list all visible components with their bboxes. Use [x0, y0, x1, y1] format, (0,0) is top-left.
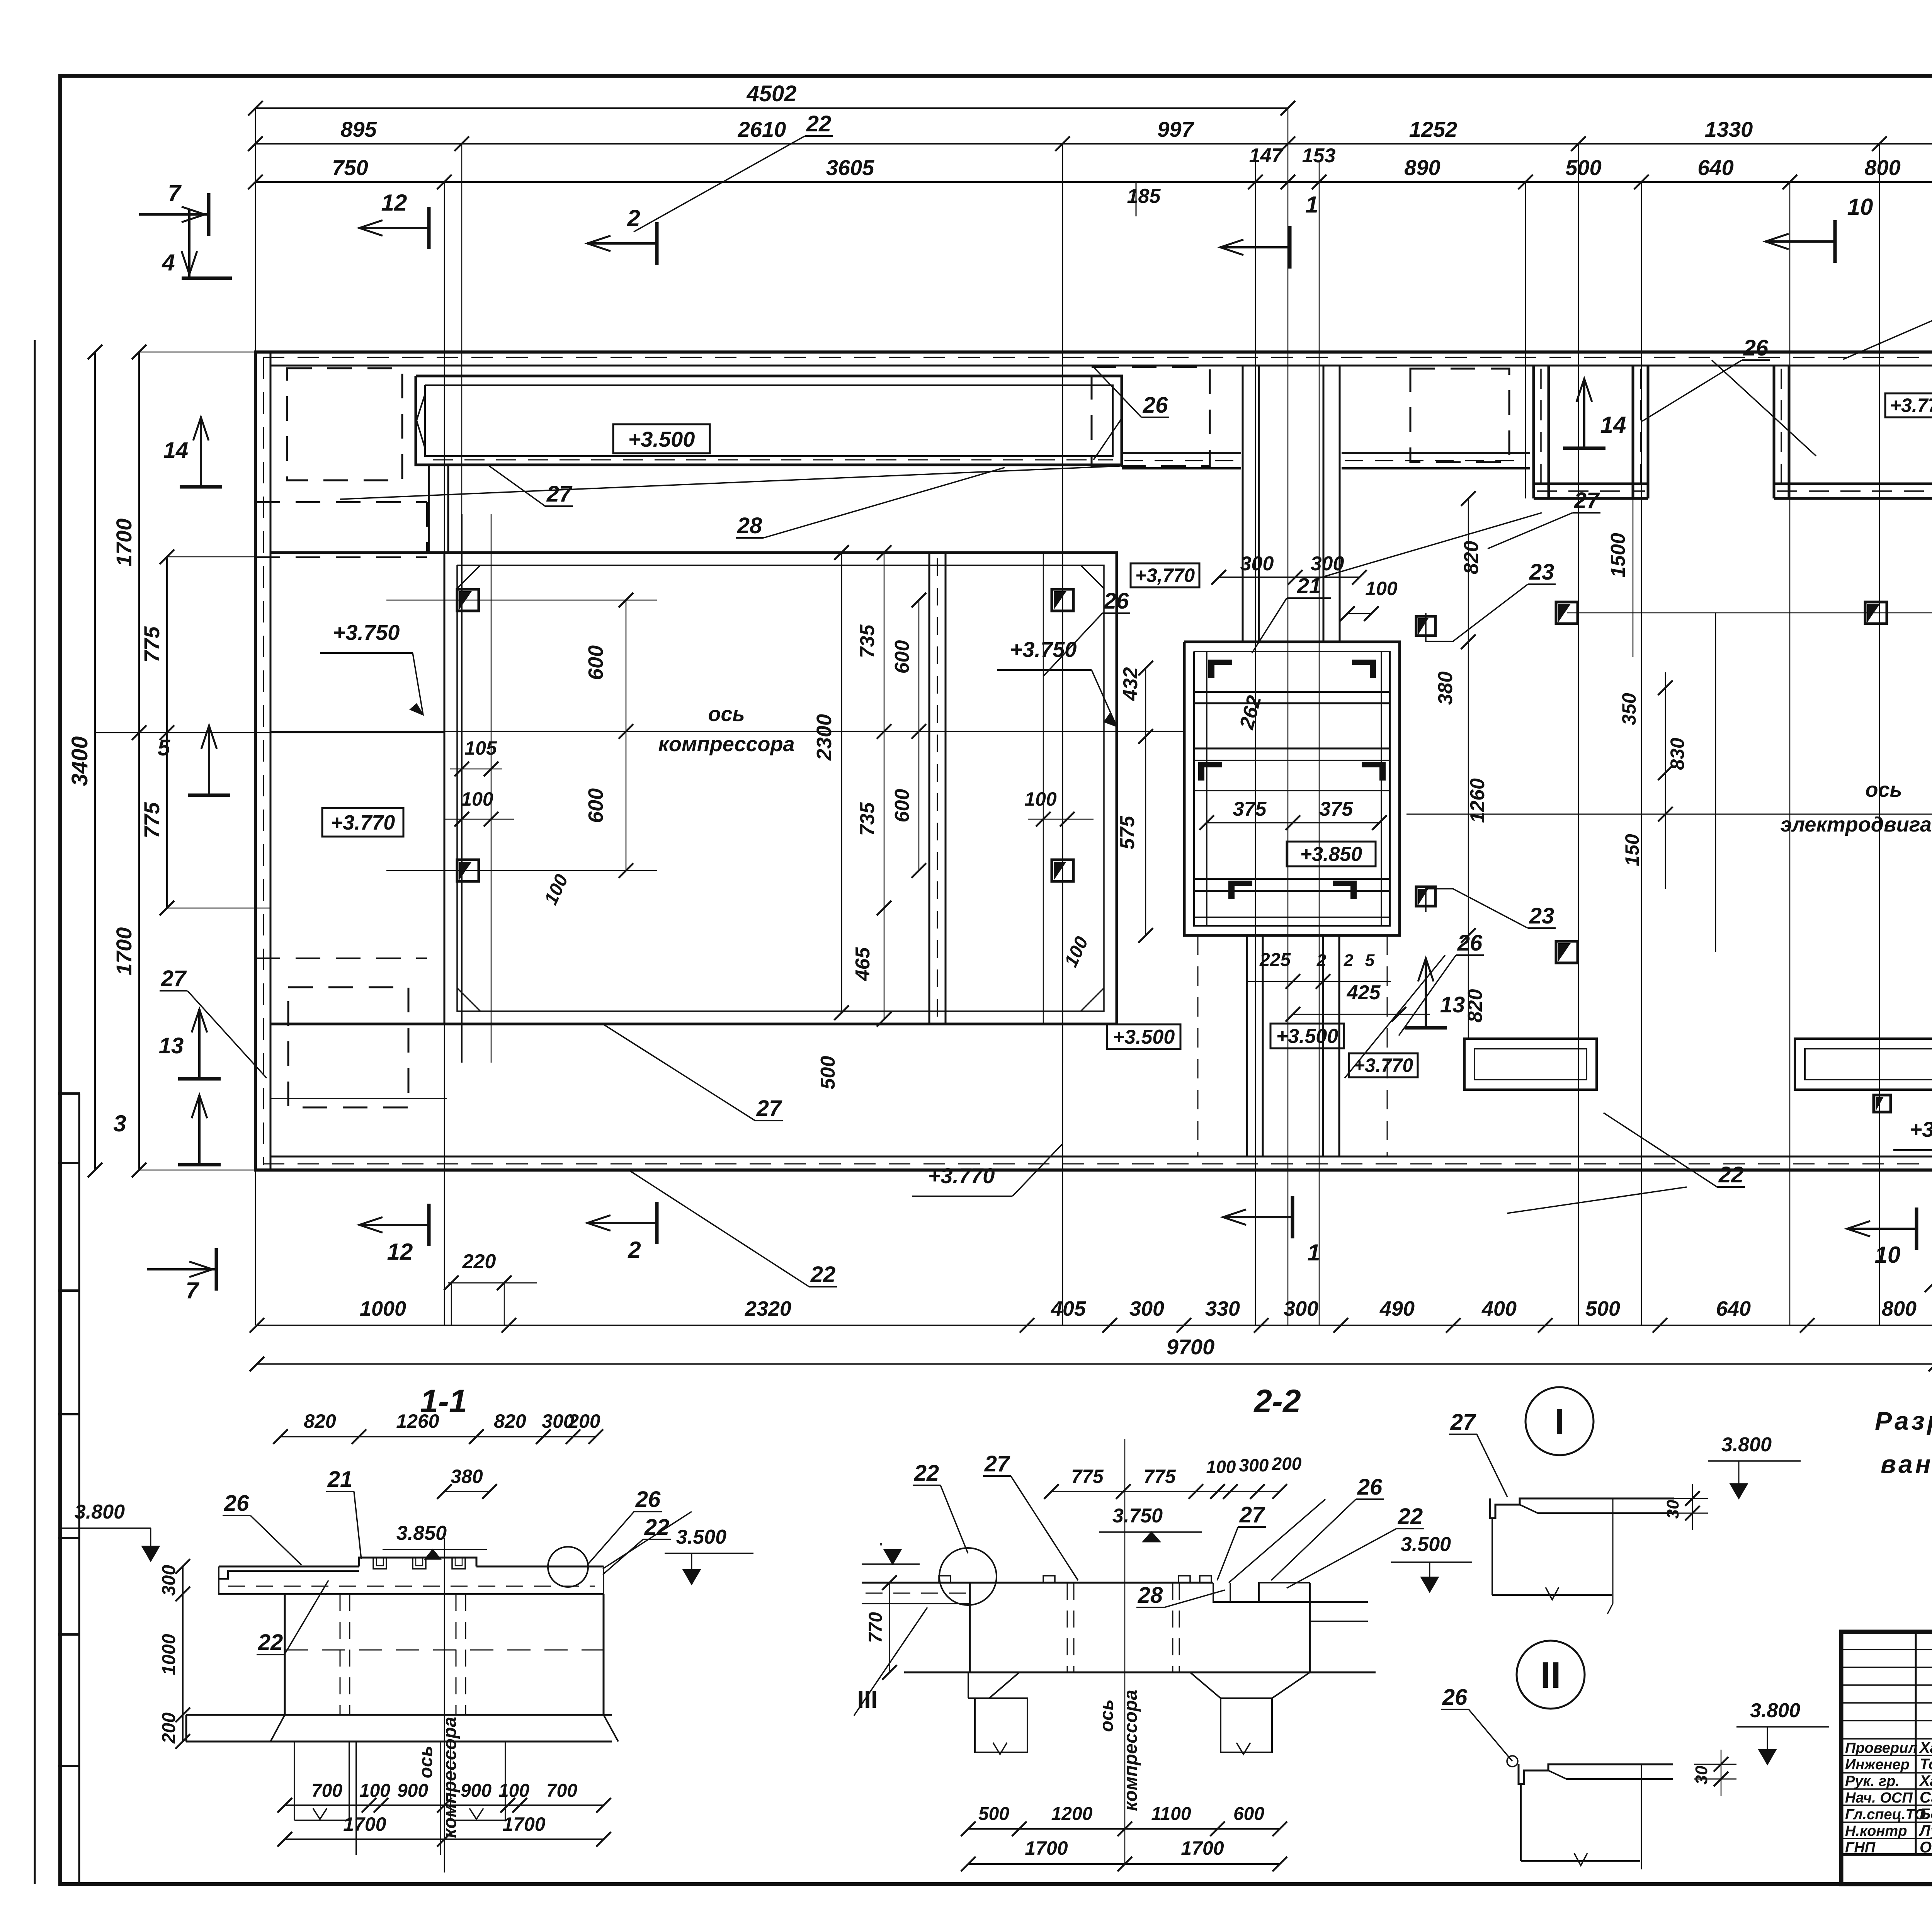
svg-text:+3.770: +3.770 — [928, 1163, 995, 1188]
svg-text:200: 200 — [568, 1410, 600, 1432]
svg-text:3.500: 3.500 — [676, 1526, 726, 1548]
svg-text:300: 300 — [1129, 1297, 1164, 1320]
left dimension columns — [94, 352, 96, 1170]
svg-text:III: III — [857, 1685, 878, 1713]
svg-text:22: 22 — [806, 111, 832, 136]
svg-text:Ханин: Ханин — [1919, 1772, 1932, 1789]
svg-text:1330: 1330 — [1705, 117, 1753, 141]
svg-text:1000: 1000 — [360, 1297, 406, 1320]
svg-text:27: 27 — [1450, 1410, 1476, 1435]
svg-text:100: 100 — [1024, 788, 1057, 810]
svg-text:13: 13 — [1440, 992, 1465, 1017]
svg-text:400: 400 — [1481, 1297, 1517, 1320]
svg-text:100: 100 — [461, 788, 493, 810]
leader labels left — [805, 135, 833, 137]
svg-text:27: 27 — [161, 966, 187, 991]
svg-text:800: 800 — [1882, 1297, 1917, 1320]
svg-text:Разрезы 10-10 — 14-14 даны на: Разрезы 10-10 — 14-14 даны на схеме арми… — [1875, 1406, 1932, 1435]
svg-text:12: 12 — [387, 1239, 413, 1265]
svg-text:700: 700 — [546, 1781, 577, 1801]
svg-text:+3,770: +3,770 — [1135, 565, 1195, 586]
svg-text:890: 890 — [1404, 155, 1440, 180]
central block bands — [1194, 691, 1390, 693]
svg-text:330: 330 — [1205, 1297, 1240, 1320]
svg-text:1260: 1260 — [396, 1410, 439, 1432]
svg-text:26: 26 — [224, 1491, 249, 1516]
svg-text:2300: 2300 — [813, 714, 836, 761]
svg-text:820: 820 — [1464, 989, 1486, 1023]
svg-text:10: 10 — [1847, 194, 1873, 220]
dashed strips left — [255, 501, 427, 503]
svg-text:3.850: 3.850 — [396, 1522, 447, 1544]
dashed squares flanking top channels — [1092, 367, 1210, 466]
svg-text:14: 14 — [163, 438, 189, 463]
svg-text:22: 22 — [1398, 1504, 1423, 1529]
svg-text:300: 300 — [1240, 553, 1274, 575]
construction verticals left — [461, 514, 463, 1063]
svg-text:147: 147 — [1249, 145, 1284, 167]
svg-text:600: 600 — [584, 788, 607, 823]
central block outer — [1184, 642, 1400, 935]
axis компрессора — [270, 731, 1184, 732]
svg-text:30: 30 — [1692, 1765, 1711, 1784]
svg-text:820: 820 — [494, 1410, 526, 1432]
svg-text:21: 21 — [1297, 573, 1321, 598]
svg-text:1200: 1200 — [1051, 1804, 1093, 1824]
svg-text:Проверил: Проверил — [1845, 1740, 1917, 1756]
svg-text:820: 820 — [1460, 541, 1483, 575]
svg-text:2: 2 — [628, 1237, 641, 1263]
svg-text:27: 27 — [1574, 488, 1600, 513]
svg-text:750: 750 — [332, 155, 368, 180]
small dims left zone — [386, 600, 657, 601]
svg-text:770: 770 — [866, 1612, 886, 1643]
svg-text:425: 425 — [1347, 981, 1381, 1004]
svg-text:26: 26 — [1357, 1475, 1383, 1500]
svg-text:4: 4 — [162, 250, 175, 276]
svg-text:800: 800 — [1864, 155, 1900, 180]
svg-text:Нач. ОСП: Нач. ОСП — [1845, 1790, 1913, 1806]
svg-text:1700: 1700 — [343, 1813, 386, 1835]
svg-text:200: 200 — [1272, 1454, 1302, 1474]
svg-text:2: 2 — [1344, 951, 1354, 970]
anchor squares left zone — [457, 589, 479, 611]
svg-text:Толмачева: Толмачева — [1920, 1756, 1932, 1773]
svg-text:700: 700 — [311, 1781, 342, 1801]
top niches right — [1532, 366, 1535, 498]
svg-text:Боярченко: Боярченко — [1920, 1806, 1932, 1823]
svg-text:100: 100 — [1365, 578, 1398, 599]
detail I — [1526, 1387, 1594, 1455]
svg-text:10: 10 — [1875, 1242, 1901, 1268]
svg-text:375: 375 — [1320, 798, 1354, 820]
svg-text:+3.770: +3.770 — [331, 811, 395, 834]
dim 2300 in pit — [841, 553, 842, 1013]
svg-text:27: 27 — [546, 481, 573, 507]
svg-text:375: 375 — [1233, 798, 1267, 820]
plan: dashed wall centrelines — [263, 357, 1932, 358]
23 leaders — [1528, 583, 1556, 585]
svg-text:600: 600 — [584, 645, 607, 680]
svg-text:+3.800: +3.800 — [1910, 1117, 1932, 1141]
svg-text:775: 775 — [1143, 1466, 1176, 1487]
svg-text:600: 600 — [891, 640, 913, 674]
central block dims — [1219, 577, 1359, 578]
svg-text:1500: 1500 — [1607, 533, 1629, 578]
svg-text:Рук. гр.: Рук. гр. — [1845, 1773, 1900, 1789]
bottom section arrows — [427, 1204, 431, 1246]
svg-text:300: 300 — [1284, 1297, 1318, 1320]
svg-text:14: 14 — [1600, 412, 1626, 438]
svg-text:997: 997 — [1157, 117, 1194, 141]
svg-text:22: 22 — [810, 1262, 836, 1287]
svg-text:220: 220 — [462, 1250, 496, 1273]
svg-text:2: 2 — [627, 205, 640, 231]
svg-text:26: 26 — [1457, 930, 1483, 956]
svg-text:ось: ось — [1865, 778, 1902, 801]
svg-text:Саакьянц: Саакьянц — [1920, 1789, 1932, 1806]
svg-text:2-2: 2-2 — [1253, 1383, 1301, 1419]
svg-text:7: 7 — [185, 1277, 199, 1303]
svg-text:+3.500: +3.500 — [1113, 1026, 1175, 1048]
svg-text:27: 27 — [1239, 1502, 1265, 1527]
anchor squares right — [1556, 602, 1578, 624]
svg-text:100: 100 — [359, 1781, 390, 1801]
svg-text:820: 820 — [304, 1410, 336, 1432]
svg-text:26: 26 — [1104, 588, 1129, 614]
svg-text:1252: 1252 — [1409, 117, 1458, 141]
svg-text:ось: ось — [1097, 1699, 1117, 1732]
svg-text:225: 225 — [1259, 950, 1291, 970]
svg-text:150: 150 — [1621, 834, 1643, 866]
svg-text:1000: 1000 — [159, 1634, 179, 1675]
svg-text:3.500: 3.500 — [1401, 1533, 1451, 1556]
beam +3.500 top-left — [416, 376, 1122, 465]
left 27 leader — [160, 990, 187, 992]
title block — [1841, 1632, 1932, 1884]
svg-text:465: 465 — [852, 947, 874, 981]
svg-text:+3.850: +3.850 — [1300, 843, 1362, 866]
svg-text:3: 3 — [113, 1111, 126, 1136]
svg-text:+3.770: +3.770 — [1354, 1054, 1413, 1076]
mid dim chains — [884, 553, 885, 1019]
niche level boxes — [1885, 393, 1932, 417]
svg-text:600: 600 — [1233, 1804, 1264, 1824]
svg-text:350: 350 — [1618, 693, 1640, 725]
svg-text:3.800: 3.800 — [1750, 1699, 1800, 1722]
svg-text:300: 300 — [159, 1565, 179, 1596]
svg-text:100: 100 — [498, 1781, 529, 1801]
svg-text:2320: 2320 — [745, 1297, 791, 1320]
svg-text:640: 640 — [1716, 1297, 1751, 1320]
svg-text:490: 490 — [1379, 1297, 1415, 1320]
svg-text:26: 26 — [1442, 1685, 1468, 1710]
svg-text:2: 2 — [1316, 951, 1327, 970]
svg-text:5: 5 — [1365, 951, 1375, 970]
svg-text:+3.750: +3.750 — [1010, 637, 1077, 662]
svg-text:1700: 1700 — [1181, 1837, 1224, 1859]
svg-text:830: 830 — [1667, 738, 1688, 770]
svg-text:380: 380 — [1434, 672, 1457, 705]
svg-text:компрессора: компрессора — [658, 733, 794, 756]
svg-text:895: 895 — [340, 117, 377, 141]
svg-text:1700: 1700 — [112, 927, 136, 976]
svg-text:775: 775 — [139, 802, 164, 838]
section cut arrows, top — [427, 207, 431, 249]
svg-text:7: 7 — [168, 180, 182, 206]
channels to bottom wall — [1246, 935, 1248, 1156]
svg-text:компрессора: компрессора — [1121, 1690, 1141, 1811]
plan: plate outer boundary — [255, 352, 1932, 1170]
bottom leaders 22 — [809, 1286, 837, 1287]
svg-text:575: 575 — [1116, 816, 1139, 850]
svg-text:4502: 4502 — [746, 81, 796, 106]
svg-text:500: 500 — [1585, 1297, 1620, 1320]
svg-text:Н.контр: Н.контр — [1845, 1823, 1907, 1839]
svg-text:26: 26 — [635, 1487, 661, 1512]
svg-text:2610: 2610 — [738, 117, 786, 141]
svg-text:900: 900 — [461, 1781, 492, 1801]
svg-text:9700: 9700 — [1167, 1335, 1215, 1359]
svg-text:30: 30 — [1663, 1500, 1682, 1519]
svg-text:500: 500 — [1565, 155, 1601, 180]
svg-text:185: 185 — [1127, 185, 1161, 207]
svg-text:Инженер: Инженер — [1845, 1757, 1910, 1773]
bottom niches — [1464, 1039, 1597, 1090]
svg-text:432: 432 — [1119, 667, 1142, 701]
svg-text:электродвигателя: электродвигателя — [1781, 813, 1932, 836]
svg-text:22: 22 — [644, 1515, 670, 1540]
compressor pit rectangle — [270, 553, 1117, 1024]
svg-text:12: 12 — [381, 190, 407, 216]
svg-text:500: 500 — [817, 1056, 839, 1090]
svg-text:22: 22 — [914, 1461, 939, 1486]
svg-text:3.800: 3.800 — [1721, 1434, 1772, 1456]
svg-text:900: 900 — [397, 1781, 428, 1801]
svg-text:27: 27 — [984, 1451, 1010, 1476]
svg-text:1700: 1700 — [502, 1813, 545, 1835]
svg-text:22: 22 — [1718, 1162, 1744, 1187]
svg-text:1: 1 — [1307, 1240, 1320, 1265]
svg-text:26: 26 — [1143, 393, 1168, 418]
svg-text:компрессора: компрессора — [440, 1717, 460, 1838]
middle wall between pits — [929, 553, 930, 1024]
svg-text:II: II — [1540, 1655, 1561, 1696]
svg-text:ГНП: ГНП — [1845, 1840, 1876, 1856]
svg-text:Гл.спец.ТО: Гл.спец.ТО — [1845, 1806, 1926, 1823]
vertical extension lines — [255, 108, 256, 1325]
svg-text:3400: 3400 — [67, 736, 92, 786]
svg-text:ось: ось — [416, 1746, 436, 1779]
channels to top wall — [1242, 366, 1244, 642]
svg-text:3605: 3605 — [826, 155, 874, 180]
svg-text:+3.500: +3.500 — [1276, 1025, 1338, 1048]
svg-text:28: 28 — [737, 513, 762, 538]
right zone construction lines — [1567, 612, 1932, 614]
svg-text:775: 775 — [1071, 1466, 1104, 1487]
svg-text:23: 23 — [1529, 903, 1554, 929]
svg-text:380: 380 — [451, 1466, 483, 1487]
detail II — [1517, 1641, 1585, 1709]
central block corner hooks — [1209, 660, 1232, 678]
svg-text:735: 735 — [856, 802, 879, 836]
svg-text:1700: 1700 — [1025, 1837, 1068, 1859]
top dimension rows — [255, 107, 1288, 109]
svg-text:28: 28 — [1138, 1583, 1163, 1608]
svg-text:3.750: 3.750 — [1112, 1505, 1163, 1527]
svg-text:405: 405 — [1051, 1297, 1086, 1320]
fold marks — [58, 1092, 80, 1095]
svg-text:+3.500: +3.500 — [628, 427, 695, 451]
svg-text:100: 100 — [1206, 1457, 1236, 1477]
svg-text:Луценко: Луценко — [1918, 1822, 1932, 1839]
svg-text:600: 600 — [891, 789, 913, 823]
svg-text:500: 500 — [978, 1804, 1009, 1824]
top wall bands beside channels — [1122, 452, 1241, 454]
svg-text:1: 1 — [1305, 192, 1318, 218]
svg-text:+3.770: +3.770 — [1890, 395, 1932, 416]
svg-text:1700: 1700 — [112, 519, 136, 567]
svg-text:Ханин: Ханин — [1919, 1739, 1932, 1756]
svg-text:1260: 1260 — [1466, 778, 1489, 823]
svg-text:ось: ось — [708, 702, 745, 726]
svg-text:1100: 1100 — [1151, 1804, 1191, 1824]
svg-text:300: 300 — [1239, 1455, 1269, 1475]
svg-text:вания плиты листы 40,41: вания плиты листы 40,41 — [1881, 1450, 1932, 1478]
svg-text:0: 0 — [880, 1543, 882, 1547]
dashed pit top-left — [287, 368, 402, 480]
plan: inner wall lines — [270, 365, 1932, 367]
svg-text:Осташевск: Осташевск — [1920, 1839, 1932, 1856]
svg-text:27: 27 — [756, 1096, 782, 1121]
svg-text:105: 105 — [464, 737, 497, 759]
svg-text:200: 200 — [159, 1713, 179, 1744]
svg-text:3.800: 3.800 — [75, 1501, 125, 1523]
dashed pit bottom-left — [288, 987, 408, 1107]
wall pair below beam mouth — [428, 465, 430, 553]
svg-text:735: 735 — [856, 624, 879, 658]
svg-text:640: 640 — [1697, 155, 1733, 180]
svg-text:13: 13 — [159, 1033, 184, 1058]
svg-text:I: I — [1554, 1401, 1565, 1442]
svg-text:22: 22 — [258, 1630, 283, 1655]
svg-text:21: 21 — [327, 1467, 353, 1492]
svg-text:775: 775 — [139, 626, 164, 662]
axis электродвигателя — [1406, 814, 1932, 815]
bottom dimension rows — [257, 1325, 1932, 1326]
svg-text:26: 26 — [1743, 335, 1769, 361]
svg-text:23: 23 — [1529, 560, 1554, 585]
svg-text:+3.750: +3.750 — [333, 620, 400, 645]
